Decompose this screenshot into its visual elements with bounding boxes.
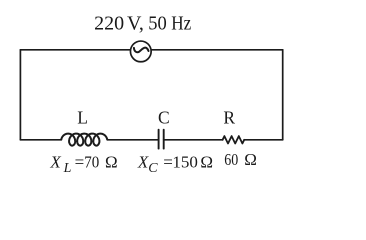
svg-text:Ω: Ω xyxy=(244,150,257,169)
svg-text:220: 220 xyxy=(94,12,124,34)
wire bottom: resistor to right corner xyxy=(244,139,283,141)
value XC = 150 ohm xyxy=(137,153,213,177)
ac source V1 circle xyxy=(130,41,151,62)
capacitor C left plate xyxy=(158,130,160,149)
svg-text:Ω: Ω xyxy=(105,153,118,172)
wire left side xyxy=(19,50,21,140)
svg-text:=: = xyxy=(75,153,85,172)
svg-text:150: 150 xyxy=(172,153,198,172)
value 60 ohm xyxy=(224,150,257,169)
svg-text:C: C xyxy=(158,107,170,127)
svg-text:C: C xyxy=(148,161,158,176)
wire top-left segment xyxy=(20,49,130,51)
value XL = 70 ohm xyxy=(49,153,117,177)
svg-text:Ω: Ω xyxy=(200,153,213,172)
wire top-right segment xyxy=(151,49,283,51)
wire bottom: inductor to capacitor xyxy=(107,139,158,141)
resistor R zigzag xyxy=(223,136,245,143)
wire right side xyxy=(282,50,284,140)
label 220 V, 50 Hz xyxy=(94,12,191,34)
svg-text:60: 60 xyxy=(224,150,238,169)
wire bottom: left to inductor xyxy=(20,139,61,141)
svg-text:70: 70 xyxy=(84,153,99,172)
svg-text:L: L xyxy=(77,107,88,127)
svg-text:L: L xyxy=(63,161,72,176)
capacitor C right plate xyxy=(163,130,165,149)
svg-text:X: X xyxy=(49,153,61,172)
svg-text:X: X xyxy=(137,153,149,172)
inductor L coil xyxy=(61,134,107,146)
svg-text:50: 50 xyxy=(148,12,167,34)
svg-text:Hz: Hz xyxy=(171,12,191,34)
svg-text:V,: V, xyxy=(127,12,144,34)
svg-text:R: R xyxy=(223,107,235,127)
wire bottom: capacitor to resistor xyxy=(164,139,223,141)
ac source V1 sine wave xyxy=(134,48,149,53)
